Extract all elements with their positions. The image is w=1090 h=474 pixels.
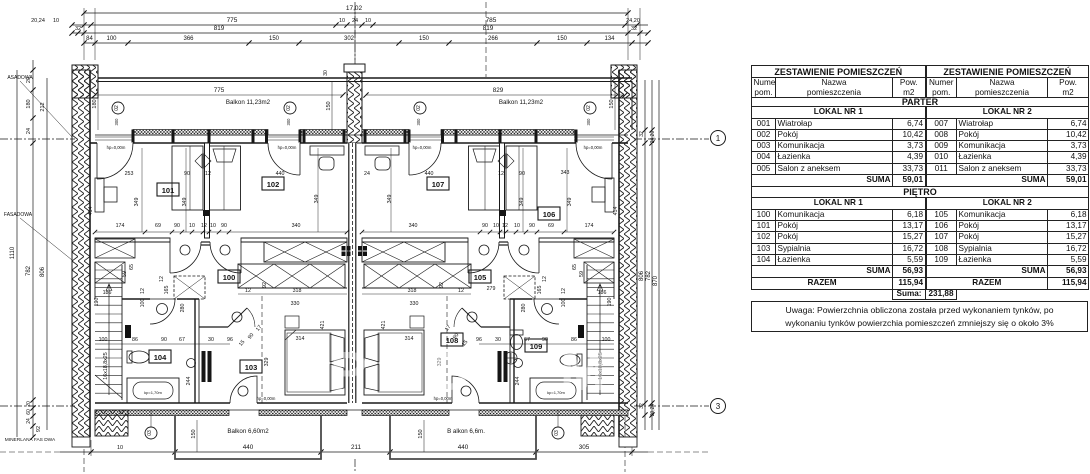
svg-text:366: 366 xyxy=(183,36,194,42)
svg-text:kp=1,70m: kp=1,70m xyxy=(144,390,162,395)
svg-text:03: 03 xyxy=(147,430,153,436)
svg-text:134: 134 xyxy=(604,36,615,42)
svg-text:440: 440 xyxy=(425,171,434,177)
svg-text:421: 421 xyxy=(381,321,387,330)
svg-text:24,20: 24,20 xyxy=(650,131,656,144)
svg-text:30: 30 xyxy=(208,337,214,343)
svg-text:330: 330 xyxy=(291,301,300,307)
svg-text:106: 106 xyxy=(543,210,556,219)
svg-text:150: 150 xyxy=(557,36,568,42)
svg-text:20: 20 xyxy=(26,401,32,407)
svg-text:59: 59 xyxy=(122,271,128,277)
svg-text:102: 102 xyxy=(267,180,280,189)
svg-text:829: 829 xyxy=(493,87,504,94)
svg-text:1: 1 xyxy=(716,134,721,143)
svg-text:90: 90 xyxy=(161,337,167,343)
svg-text:330: 330 xyxy=(410,301,419,307)
svg-text:819: 819 xyxy=(483,25,494,32)
svg-text:FASADOWA: FASADOWA xyxy=(4,212,33,218)
svg-text:414: 414 xyxy=(613,207,619,216)
svg-text:96: 96 xyxy=(476,337,482,343)
svg-text:349: 349 xyxy=(134,198,140,207)
svg-text:329: 329 xyxy=(264,358,270,367)
svg-text:186: 186 xyxy=(598,290,607,296)
svg-text:266: 266 xyxy=(488,36,499,42)
svg-text:150: 150 xyxy=(418,429,424,438)
svg-text:90: 90 xyxy=(529,223,535,229)
svg-text:302: 302 xyxy=(344,36,355,42)
svg-text:318: 318 xyxy=(408,288,417,294)
svg-text:300: 300 xyxy=(416,118,421,126)
svg-text:90: 90 xyxy=(247,332,255,340)
svg-text:16x18,8x25: 16x18,8x25 xyxy=(103,352,109,379)
svg-text:244: 244 xyxy=(515,377,521,386)
svg-text:349: 349 xyxy=(387,195,393,204)
svg-text:314: 314 xyxy=(405,336,414,342)
svg-text:180: 180 xyxy=(92,99,98,108)
svg-text:12: 12 xyxy=(140,288,146,294)
svg-text:30: 30 xyxy=(495,337,501,343)
svg-text:02: 02 xyxy=(416,105,422,111)
svg-text:107: 107 xyxy=(432,180,445,189)
svg-text:211: 211 xyxy=(351,444,362,451)
svg-text:92: 92 xyxy=(262,282,268,288)
svg-text:279: 279 xyxy=(487,286,496,292)
svg-text:hp=0,00m: hp=0,00m xyxy=(584,145,603,150)
svg-text:02: 02 xyxy=(586,105,592,111)
svg-text:300: 300 xyxy=(114,118,119,126)
svg-text:17: 17 xyxy=(444,324,452,332)
svg-text:349: 349 xyxy=(519,198,525,207)
svg-text:180: 180 xyxy=(26,99,32,108)
svg-text:90: 90 xyxy=(174,223,180,229)
svg-text:870: 870 xyxy=(653,275,659,286)
svg-text:150: 150 xyxy=(326,101,332,110)
svg-text:340: 340 xyxy=(292,223,301,229)
svg-text:343: 343 xyxy=(561,170,570,176)
svg-text:32: 32 xyxy=(639,403,645,409)
svg-text:100: 100 xyxy=(561,299,567,308)
svg-text:105: 105 xyxy=(474,273,487,282)
svg-text:103: 103 xyxy=(245,363,258,372)
svg-text:90: 90 xyxy=(482,223,488,229)
svg-text:90: 90 xyxy=(519,171,525,177)
svg-text:M: M xyxy=(560,340,606,402)
svg-text:10: 10 xyxy=(53,18,59,24)
svg-text:65: 65 xyxy=(572,264,578,270)
svg-text:10: 10 xyxy=(493,223,499,229)
svg-text:3: 3 xyxy=(716,402,721,411)
svg-text:253: 253 xyxy=(125,171,134,177)
svg-text:59: 59 xyxy=(579,271,585,277)
svg-text:775: 775 xyxy=(214,87,225,94)
svg-text:24: 24 xyxy=(26,418,32,424)
svg-text:305: 305 xyxy=(579,444,590,451)
svg-text:782: 782 xyxy=(646,270,652,281)
svg-text:02: 02 xyxy=(286,105,292,111)
svg-text:60: 60 xyxy=(26,409,32,415)
svg-text:B alkon 6,6m.: B alkon 6,6m. xyxy=(447,428,485,435)
svg-text:104: 104 xyxy=(154,353,167,362)
svg-text:MINERLANA FAS DWA: MINERLANA FAS DWA xyxy=(5,437,56,443)
svg-text:150: 150 xyxy=(191,429,197,438)
svg-text:hp=0,00m: hp=0,00m xyxy=(278,145,297,150)
svg-text:24: 24 xyxy=(364,171,370,177)
svg-text:819: 819 xyxy=(214,25,225,32)
svg-text:90: 90 xyxy=(184,171,190,177)
svg-text:32: 32 xyxy=(639,131,645,137)
svg-text:02: 02 xyxy=(114,105,120,111)
svg-text:Balkon 11,23m2: Balkon 11,23m2 xyxy=(499,99,544,106)
svg-text:100: 100 xyxy=(106,36,117,42)
svg-text:174: 174 xyxy=(585,223,594,229)
svg-text:65: 65 xyxy=(129,264,135,270)
svg-text:101: 101 xyxy=(162,186,175,195)
svg-text:100: 100 xyxy=(223,273,236,282)
svg-text:30: 30 xyxy=(323,70,329,76)
svg-text:775: 775 xyxy=(227,17,238,24)
svg-text:84: 84 xyxy=(86,36,93,42)
svg-text:69: 69 xyxy=(155,223,161,229)
svg-text:150: 150 xyxy=(609,99,615,108)
svg-text:349: 349 xyxy=(567,198,573,207)
svg-text:190: 190 xyxy=(607,298,613,307)
svg-text:12: 12 xyxy=(245,288,251,294)
svg-text:150: 150 xyxy=(419,36,430,42)
svg-text:12: 12 xyxy=(159,276,165,282)
svg-text:414: 414 xyxy=(88,207,94,216)
svg-text:67: 67 xyxy=(524,337,530,343)
svg-text:150: 150 xyxy=(269,36,280,42)
svg-text:69: 69 xyxy=(548,223,554,229)
svg-text:90: 90 xyxy=(221,223,227,229)
svg-text:10: 10 xyxy=(365,18,371,24)
svg-text:17,02: 17,02 xyxy=(346,5,363,12)
svg-text:280: 280 xyxy=(521,304,527,313)
svg-text:785: 785 xyxy=(486,17,497,24)
svg-text:1110: 1110 xyxy=(10,246,16,259)
svg-text:03: 03 xyxy=(554,430,560,436)
svg-text:440: 440 xyxy=(458,444,469,451)
svg-text:340: 340 xyxy=(409,223,418,229)
svg-text:100: 100 xyxy=(99,337,108,343)
svg-text:10: 10 xyxy=(117,445,123,451)
svg-text:20,24: 20,24 xyxy=(650,404,656,417)
svg-text:318: 318 xyxy=(293,288,302,294)
svg-text:10: 10 xyxy=(514,223,520,229)
svg-text:12: 12 xyxy=(498,171,504,177)
svg-text:67: 67 xyxy=(179,337,185,343)
svg-text:349: 349 xyxy=(182,198,188,207)
svg-text:10: 10 xyxy=(210,223,216,229)
svg-text:92: 92 xyxy=(36,426,42,432)
svg-text:32: 32 xyxy=(75,26,81,32)
svg-text:280: 280 xyxy=(180,304,186,313)
svg-text:100: 100 xyxy=(140,299,146,308)
svg-text:300: 300 xyxy=(586,118,591,126)
svg-text:24: 24 xyxy=(26,128,32,134)
svg-text:12: 12 xyxy=(542,276,548,282)
svg-text:32: 32 xyxy=(631,26,637,32)
svg-text:300: 300 xyxy=(286,118,291,126)
svg-text:12: 12 xyxy=(502,223,508,229)
svg-text:421: 421 xyxy=(320,321,326,330)
svg-text:ASADOWA: ASADOWA xyxy=(7,75,33,81)
svg-text:10: 10 xyxy=(339,18,345,24)
svg-text:D: D xyxy=(430,340,470,402)
svg-text:20,24: 20,24 xyxy=(31,18,45,24)
svg-text:109: 109 xyxy=(530,342,543,351)
svg-text:hp=0,00m: hp=0,00m xyxy=(257,396,276,401)
svg-text:186: 186 xyxy=(103,290,112,296)
svg-text:10: 10 xyxy=(189,223,195,229)
svg-text:90: 90 xyxy=(542,337,548,343)
svg-text:P: P xyxy=(330,340,367,402)
svg-text:165: 165 xyxy=(537,286,543,295)
svg-text:806: 806 xyxy=(639,270,645,281)
svg-text:12: 12 xyxy=(458,288,464,294)
svg-text:440: 440 xyxy=(243,444,254,451)
svg-text:92: 92 xyxy=(439,282,445,288)
svg-text:190: 190 xyxy=(94,298,100,307)
svg-text:hp=0,00m: hp=0,00m xyxy=(413,145,432,150)
svg-text:806: 806 xyxy=(40,266,46,277)
svg-text:12: 12 xyxy=(561,288,567,294)
svg-text:hp=0,00m: hp=0,00m xyxy=(107,145,126,150)
svg-text:12: 12 xyxy=(205,171,211,177)
svg-text:782: 782 xyxy=(26,265,32,276)
svg-text:Balkon 11,23m2: Balkon 11,23m2 xyxy=(226,99,271,106)
svg-text:Balkon 6,60m2: Balkon 6,60m2 xyxy=(227,428,269,435)
svg-text:314: 314 xyxy=(296,336,305,342)
svg-text:12: 12 xyxy=(201,223,207,229)
svg-text:86: 86 xyxy=(132,337,138,343)
svg-text:165: 165 xyxy=(164,286,170,295)
svg-text:349: 349 xyxy=(314,195,320,204)
svg-text:440: 440 xyxy=(276,171,285,177)
svg-text:244: 244 xyxy=(186,377,192,386)
svg-text:96: 96 xyxy=(227,337,233,343)
svg-text:15: 15 xyxy=(238,339,246,347)
svg-text:174: 174 xyxy=(116,223,125,229)
